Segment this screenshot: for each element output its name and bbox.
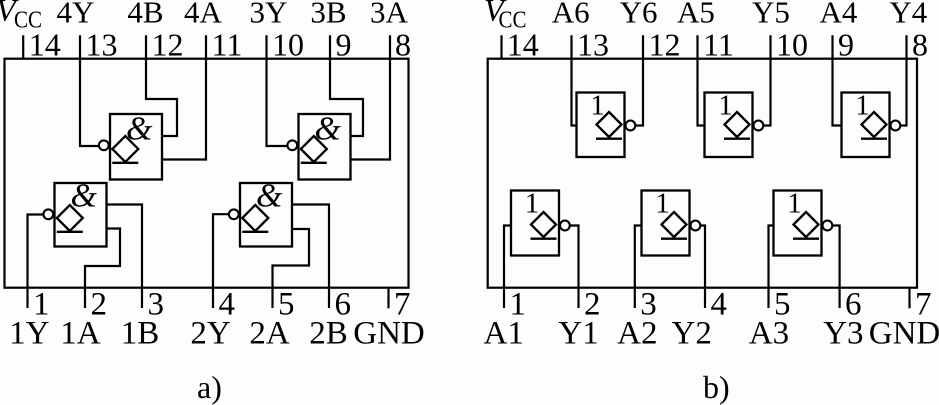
top pin labels (a)	[57, 0, 409, 29]
wire pin8 to gate3 input A	[351, 35, 390, 159]
svg-text:13: 13	[577, 27, 609, 63]
wire gate1 output bubble to pin1	[28, 215, 43, 309]
inverter b1	[577, 93, 636, 158]
svg-text:A4: A4	[819, 0, 857, 29]
svg-text:8: 8	[395, 27, 411, 63]
svg-text:3Y: 3Y	[250, 0, 288, 29]
svg-text:2A: 2A	[249, 316, 290, 352]
IC body a	[5, 59, 409, 288]
top pin numbers (b)	[507, 27, 928, 63]
wire pin2 to gate1 input A	[85, 229, 120, 309]
NAND gate 2 (a)	[229, 183, 292, 247]
svg-text:A2: A2	[617, 316, 657, 352]
wire inverter b2 output bubble to pin10	[764, 35, 771, 125]
pin 7 tick (a)	[387, 288, 389, 309]
svg-text:2Y: 2Y	[190, 316, 230, 352]
svg-text:GND: GND	[869, 316, 939, 352]
svg-text:1: 1	[590, 90, 605, 122]
wire pin5 to gate2 input A	[273, 229, 310, 308]
inverter b5	[642, 191, 701, 256]
svg-text:12: 12	[649, 27, 681, 63]
wire pin13 to gate4 output bubble	[80, 35, 99, 146]
svg-text:8: 8	[912, 27, 928, 63]
wire inverter b6 output bubble to pin6	[833, 226, 840, 309]
wire inverter b5 output bubble to pin4	[701, 226, 706, 309]
svg-text:10: 10	[272, 27, 304, 63]
wire pin13 to inverter b1 input	[572, 35, 578, 125]
wire pin10 to gate3 output bubble	[267, 35, 288, 146]
bottom pin labels (b)	[484, 316, 939, 352]
svg-text:11: 11	[212, 27, 243, 63]
svg-text:3B: 3B	[310, 0, 346, 29]
svg-text:14: 14	[507, 27, 539, 63]
svg-text:1Y: 1Y	[9, 316, 49, 352]
svg-text:4: 4	[711, 287, 728, 323]
inverter b3	[842, 93, 901, 158]
svg-text:1: 1	[655, 188, 670, 220]
svg-text:2B: 2B	[309, 316, 348, 352]
svg-text:1: 1	[525, 188, 540, 220]
svg-text:1: 1	[855, 90, 870, 122]
svg-text:1: 1	[718, 90, 733, 122]
svg-text:4A: 4A	[184, 0, 223, 29]
svg-text:A6: A6	[552, 0, 590, 29]
VCC label (a)	[0, 0, 42, 34]
svg-text:10: 10	[776, 27, 808, 63]
bottom pin numbers (b)	[510, 287, 932, 323]
svg-text:Y4: Y4	[889, 0, 927, 29]
svg-text:&: &	[256, 177, 283, 214]
wire gate2 output bubble to pin4	[213, 214, 228, 308]
svg-text:9: 9	[336, 27, 352, 63]
wire pin3 to inverter b5 input	[635, 226, 642, 309]
svg-text:Y1: Y1	[558, 316, 598, 352]
svg-text:12: 12	[152, 27, 184, 63]
svg-text:GND: GND	[353, 316, 425, 352]
wire pin5 to inverter b6 input	[769, 226, 775, 309]
svg-text:13: 13	[86, 27, 118, 63]
svg-text:Y3: Y3	[823, 316, 863, 352]
svg-text:1B: 1B	[121, 316, 160, 352]
VCC label (b)	[484, 0, 527, 34]
wire pin9 to gate3 input B	[330, 35, 363, 136]
svg-text:14: 14	[29, 27, 61, 63]
svg-text:1: 1	[787, 188, 802, 220]
wire pin12 to gate4 input B	[146, 35, 177, 136]
wire pin1 to inverter b4 input	[504, 226, 512, 309]
wire inverter b1 output bubble to pin12	[636, 35, 644, 125]
svg-text:A5: A5	[677, 0, 715, 29]
wire pin6 to gate2 input B	[293, 205, 329, 309]
svg-text:a): a)	[197, 369, 222, 405]
svg-text:Y5: Y5	[752, 0, 790, 29]
IC body b	[488, 59, 917, 288]
inverter b6	[774, 191, 833, 256]
svg-text:1A: 1A	[60, 316, 101, 352]
svg-text:b): b)	[703, 369, 730, 405]
wire inverter b4 output bubble to pin2	[570, 226, 579, 309]
wire inverter b3 output bubble to pin8	[901, 35, 907, 125]
top pin labels (b)	[552, 0, 928, 29]
pin 7 tick (b)	[908, 288, 910, 309]
svg-text:Y6: Y6	[620, 0, 658, 29]
pin 14 tick (b)	[500, 35, 502, 58]
svg-text:Y2: Y2	[672, 316, 712, 352]
NAND gate 1 (a)	[43, 183, 106, 247]
svg-text:&: &	[70, 177, 97, 214]
svg-text:A3: A3	[749, 316, 789, 352]
svg-text:&: &	[126, 110, 153, 147]
wire pin11 to inverter b2 input	[698, 35, 706, 125]
svg-text:11: 11	[703, 27, 734, 63]
svg-text:4B: 4B	[127, 0, 163, 29]
top pin numbers (a)	[29, 27, 411, 63]
svg-text:A1: A1	[484, 316, 524, 352]
wire pin11 to gate4 input A	[163, 35, 207, 159]
svg-text:4Y: 4Y	[57, 0, 95, 29]
wire pin3 to gate1 input B	[106, 205, 142, 309]
svg-text:9: 9	[838, 27, 854, 63]
svg-text:3A: 3A	[370, 0, 409, 29]
bottom pin labels (a)	[9, 316, 425, 352]
wire pin9 to inverter b3 input	[833, 35, 843, 125]
svg-text:&: &	[314, 110, 341, 147]
NAND gate 3 (a)	[287, 114, 350, 180]
NAND gate 4 (a)	[99, 114, 162, 180]
pin 14 tick (a)	[22, 35, 24, 58]
inverter b2	[705, 93, 764, 158]
bottom pin numbers (a)	[33, 287, 411, 323]
inverter b4	[511, 191, 570, 256]
